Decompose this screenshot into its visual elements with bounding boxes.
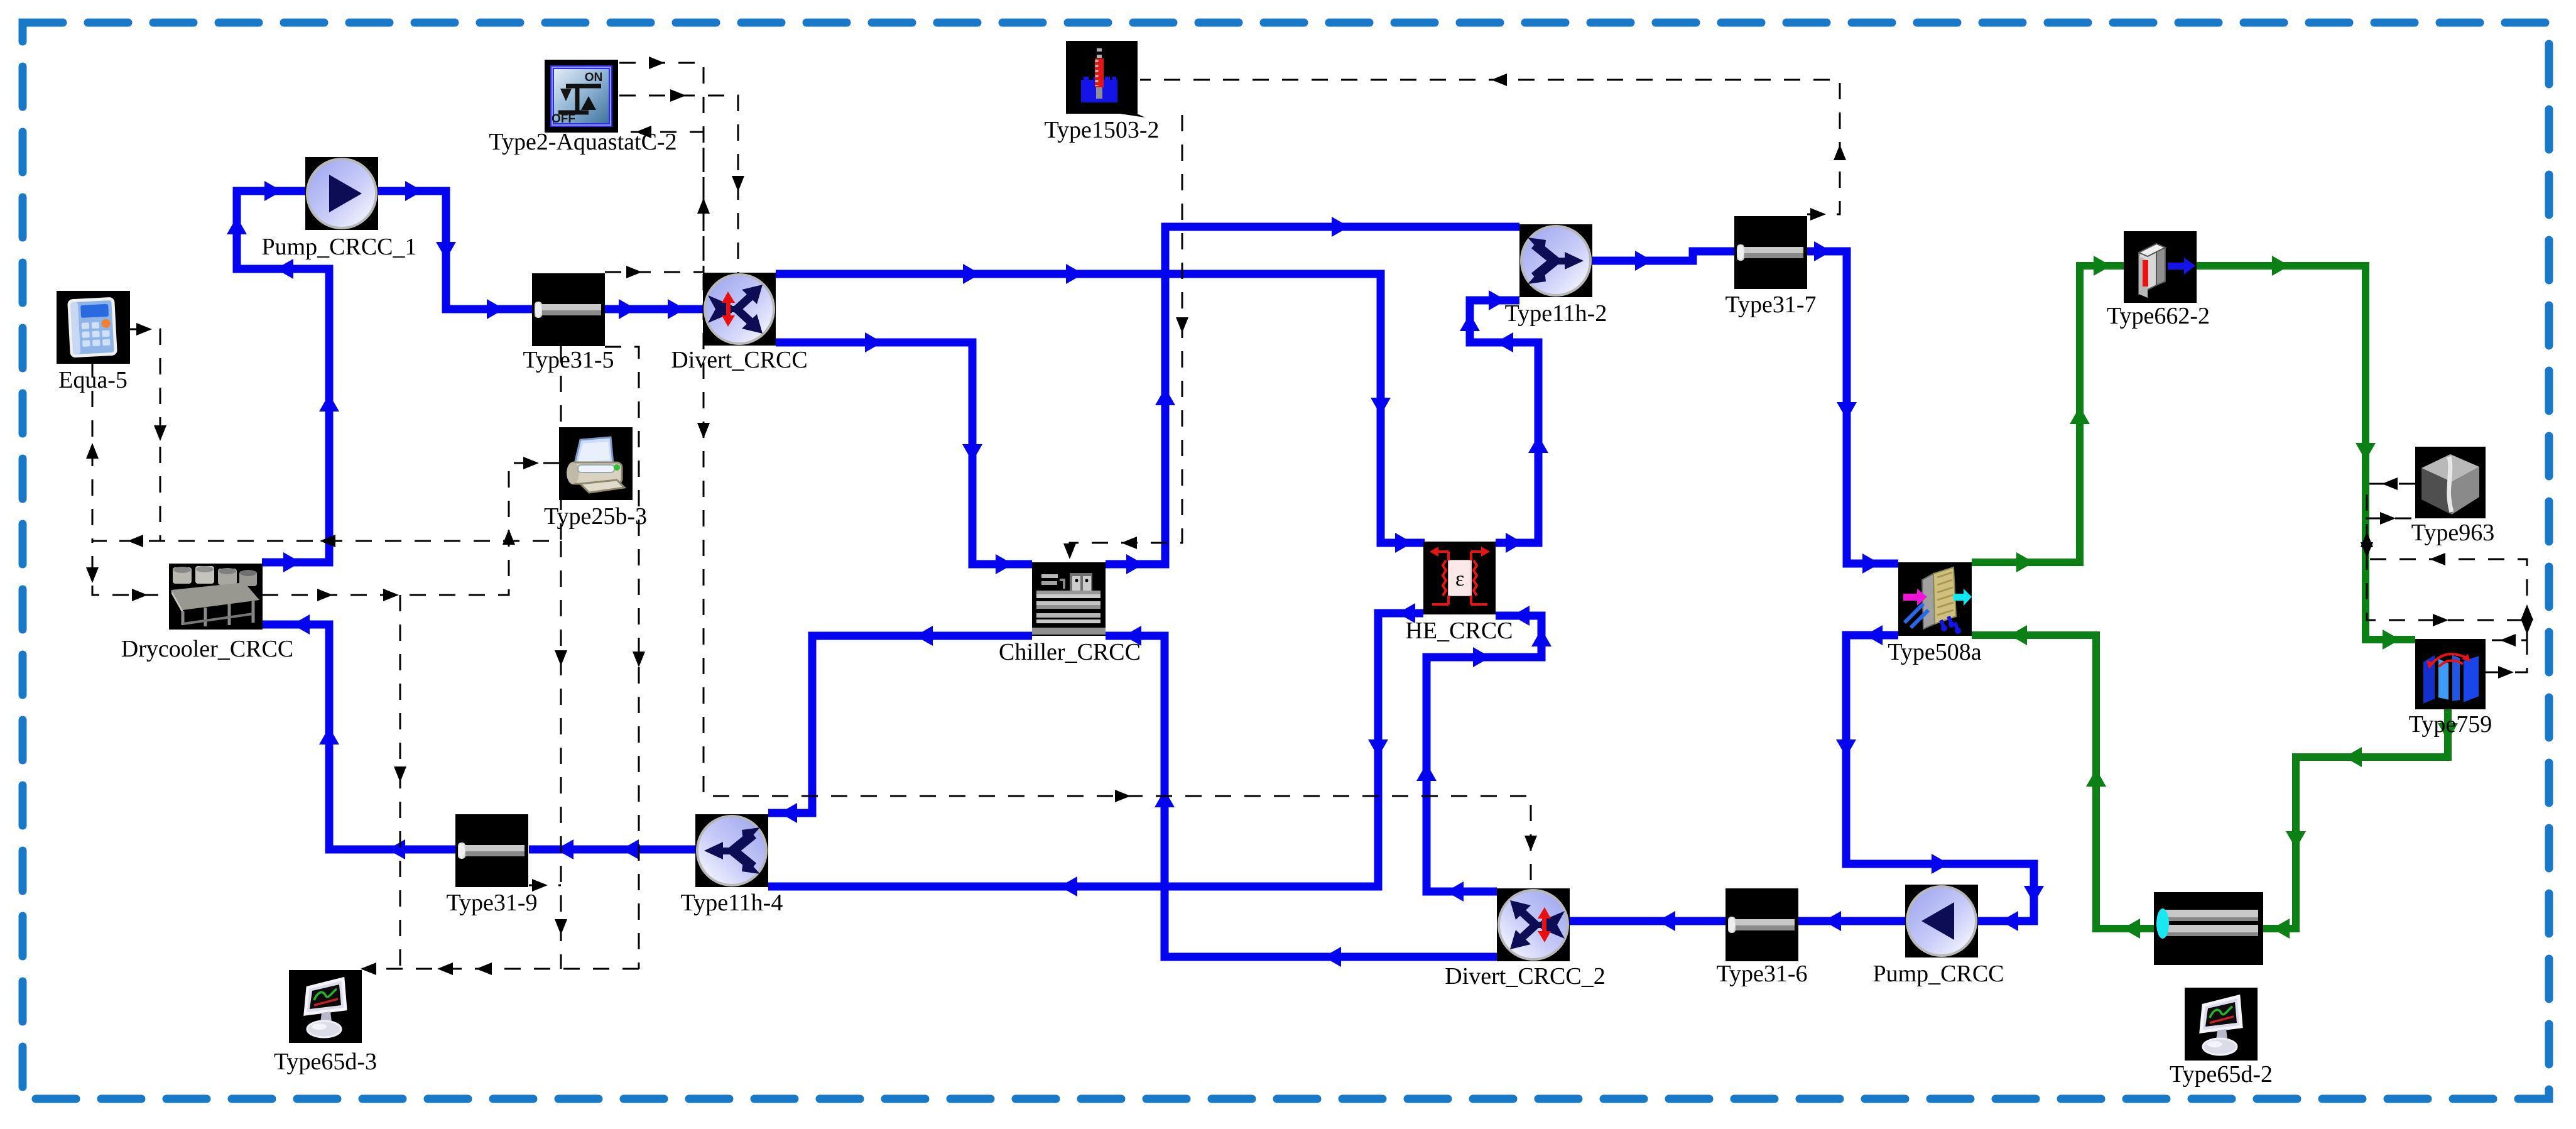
- wire Type662-2 out -> Type759 in: [2197, 266, 2415, 640]
- svg-text:Drycooler_CRCC: Drycooler_CRCC: [121, 636, 293, 662]
- wire duct pipe out -> Type508a air return: [1972, 635, 2154, 929]
- wire Pump_CRCC out -> Type31-6 -> Divert_CRCC_2 in: [1570, 917, 1905, 925]
- svg-text:Type963: Type963: [2411, 520, 2494, 546]
- calculator Equa-5: [57, 291, 130, 364]
- svg-text:Type31-7: Type31-7: [1725, 292, 1816, 318]
- pump Pump_CRCC: [1905, 885, 1978, 957]
- svg-text:Type65d-3: Type65d-3: [274, 1049, 377, 1075]
- svg-text:Pump_CRCC_1: Pump_CRCC_1: [261, 234, 416, 260]
- link Type31-5 temp -> Equa-5 input: [92, 346, 561, 541]
- wire Drycooler_CRCC out -> Pump_CRCC_1 in: [237, 191, 329, 562]
- zone Type759: [2415, 639, 2486, 709]
- link Type2-AquastatC-2 out1 -> Divert_CRCC_2 control: [619, 63, 1531, 888]
- heat exchanger HE_CRCC: [1423, 542, 1496, 614]
- printer Type25b-3: [559, 427, 633, 500]
- storage cube Type963: [2415, 447, 2486, 518]
- link Type963 out -> Type759 input: [2367, 484, 2527, 640]
- wire Chiller_CRCC out2 -> Type11h-4 in2: [768, 636, 1032, 813]
- svg-text:Divert_CRCC: Divert_CRCC: [671, 347, 807, 373]
- svg-text:Type662-2: Type662-2: [2107, 303, 2210, 329]
- svg-text:Pump_CRCC: Pump_CRCC: [1872, 961, 2004, 987]
- drycooler Drycooler_CRCC: [169, 564, 263, 630]
- link Type31-5 out2 -> Type65d-3 plotter (riser 2): [605, 347, 639, 969]
- wire Type759 out -> duct pipe in: [2263, 709, 2448, 929]
- svg-text:Type25b-3: Type25b-3: [544, 503, 647, 530]
- pump Pump_CRCC_1: [305, 157, 378, 230]
- svg-text:Type2-AquastatC-2: Type2-AquastatC-2: [489, 129, 677, 155]
- wire HE_CRCC hot out -> Type11h-4 in: [768, 613, 1423, 886]
- svg-text:Type31-5: Type31-5: [523, 347, 614, 373]
- cooling coil Type508a: [1898, 562, 1972, 636]
- svg-text:Equa-5: Equa-5: [58, 367, 128, 393]
- link Type31-5 temp -> Type2-AquastatC-2 input: [605, 132, 704, 272]
- pipe Type31-7: [1734, 216, 1807, 289]
- link Type1503-2 out -> Chiller_CRCC control: [1070, 115, 1182, 561]
- wire Type31-5 out -> Divert_CRCC in: [605, 305, 703, 314]
- link Type31-5 temp -> Type65d-3 plotter (riser): [560, 541, 562, 969]
- svg-text:Chiller_CRCC: Chiller_CRCC: [999, 639, 1141, 665]
- wire Type31-9 out -> Drycooler_CRCC return: [262, 624, 455, 849]
- link Type31-7 temp -> Type1503-2 input: [1140, 80, 1840, 214]
- duct pipe (twin): [2154, 892, 2263, 965]
- wire Pump_CRCC_1 out -> Type31-5 in: [378, 191, 532, 309]
- wire Divert_CRCC_2 out1 -> HE_CRCC cold in: [1427, 616, 1541, 892]
- svg-text:ON: ON: [585, 71, 603, 84]
- svg-text:Type31-9: Type31-9: [446, 890, 537, 916]
- controller Type2-AquastatC-2: [545, 60, 618, 133]
- wire Divert_CRCC_2 out2 -> Chiller_CRCC return: [1106, 636, 1497, 957]
- link collector bus -> Type65d-3 plotter input: [362, 968, 639, 970]
- wire Type508a air out -> Type662-2 in: [1972, 266, 2124, 562]
- sensor Type1503-2: [1066, 41, 1145, 117]
- plotter Type65d-2: [2185, 988, 2258, 1061]
- pipe Type31-5: [532, 273, 605, 346]
- wire Type31-7 out -> Type508a air in: [1807, 251, 1898, 564]
- svg-text:Type508a: Type508a: [1888, 639, 1981, 665]
- svg-text:Divert_CRCC_2: Divert_CRCC_2: [1445, 963, 1605, 990]
- tee Type11h-4: [695, 814, 768, 887]
- svg-text:Type31-6: Type31-6: [1716, 961, 1807, 987]
- chiller Chiller_CRCC: [1032, 562, 1106, 636]
- wire Divert_CRCC out2 -> Chiller_CRCC in: [776, 342, 1032, 564]
- link Type31-9 out -> Type65d-3 plotter: [529, 885, 561, 886]
- fan coil Type662-2: [2124, 231, 2197, 303]
- svg-text:Type65d-2: Type65d-2: [2170, 1061, 2273, 1088]
- link Type2-AquastatC-2 out2 -> Divert_CRCC control: [619, 95, 738, 273]
- plotter Type65d-3: [289, 970, 362, 1043]
- svg-text:Type759: Type759: [2409, 711, 2492, 738]
- svg-text:Type11h-4: Type11h-4: [681, 890, 783, 916]
- wire Divert_CRCC out1 -> HE_CRCC hot in: [776, 274, 1425, 543]
- link Equa-5 out -> Drycooler_CRCC ambient: [92, 329, 169, 595]
- wire Type508a out -> Pump_CRCC in: [1846, 635, 2034, 921]
- svg-text:Type11h-2: Type11h-2: [1505, 300, 1607, 327]
- pipe Type31-6: [1725, 888, 1798, 961]
- svg-text:HE_CRCC: HE_CRCC: [1405, 618, 1513, 644]
- wire Chiller_CRCC out -> Type11h-2 in1: [1106, 227, 1519, 564]
- wire Type11h-4 out -> Type31-9: [529, 846, 695, 854]
- link Drycooler_CRCC out -> Type25b-3 printer: [262, 463, 559, 595]
- link Drycooler_CRCC out -> Type65d-3 plotter: [399, 595, 401, 969]
- svg-text:Type1503-2: Type1503-2: [1044, 117, 1159, 143]
- wire HE_CRCC cold out -> Type11h-2 in2: [1470, 300, 1538, 543]
- diverter Divert_CRCC_2: [1497, 888, 1570, 961]
- wire Type11h-2 out -> Type31-7: [1592, 251, 1734, 261]
- diverter Divert_CRCC: [703, 273, 776, 346]
- link Type759 out -> Type963 input: [2367, 518, 2527, 672]
- pipe Type31-9: [455, 814, 528, 887]
- svg-text:ε: ε: [1455, 567, 1464, 591]
- tee Type11h-2: [1519, 224, 1592, 297]
